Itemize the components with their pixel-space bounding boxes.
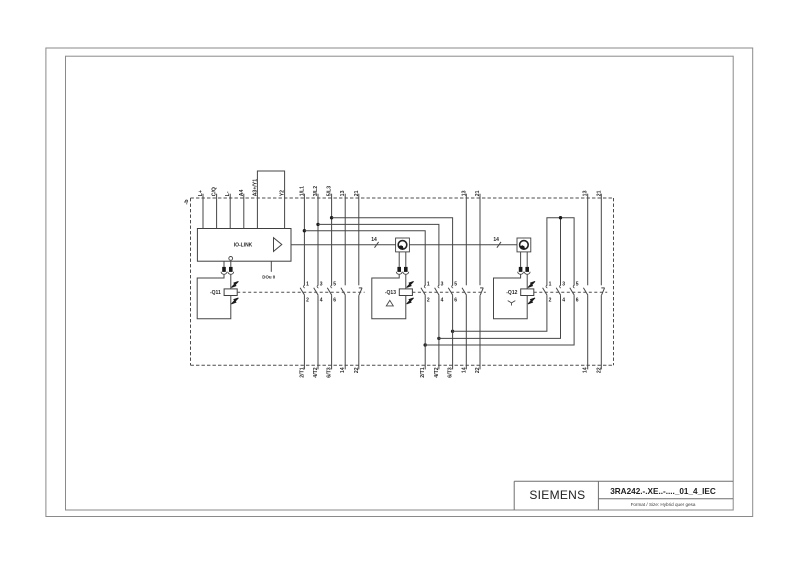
svg-text:-Q12: -Q12 — [506, 290, 517, 296]
motor winding cross wire y=331.3 — [453, 295, 547, 331]
svg-text:5: 5 — [454, 281, 457, 287]
svg-text:6: 6 — [454, 297, 457, 303]
svg-text:22: 22 — [354, 367, 360, 373]
svg-text:1/L1: 1/L1 — [299, 186, 305, 196]
wire 5/L3 top column -Q11 — [331, 194, 333, 286]
svg-text:4: 4 — [562, 297, 565, 303]
svg-text:13: 13 — [583, 190, 589, 196]
svg-text:3: 3 — [441, 281, 444, 287]
wire 13 top column -Q12 — [587, 194, 589, 286]
auxiliary NO contact 13-14 of -Q13 — [462, 288, 467, 295]
auxiliary NC contact 21-22 of -Q11 — [359, 287, 362, 289]
contactor -Q12 plunger arrow lower — [528, 298, 535, 304]
svg-text:3/L2: 3/L2 — [313, 186, 319, 196]
contactor -Q11 coil wires from module — [223, 261, 225, 267]
svg-text:22: 22 — [596, 367, 602, 373]
svg-text:21: 21 — [596, 190, 602, 196]
svg-text:14: 14 — [371, 237, 377, 243]
main contact 5-6 of -Q13 — [452, 285, 453, 288]
contactor -Q11 coil — [224, 289, 237, 296]
svg-text:3RA242.-.XE..-...._01_4_IEC: 3RA242.-.XE..-...._01_4_IEC — [610, 487, 716, 496]
svg-text:A3+/Y1: A3+/Y1 — [252, 179, 258, 197]
wire 2/T1 bottom column -Q13 — [424, 295, 426, 369]
svg-text:14: 14 — [340, 367, 346, 373]
svg-text:4: 4 — [441, 297, 444, 303]
wire 6/T3 bottom column -Q11 — [331, 295, 333, 369]
svg-text:14: 14 — [583, 367, 589, 373]
mechanical linkage dashed line -Q13 — [412, 291, 485, 293]
svg-text:C/Q: C/Q — [212, 187, 218, 196]
wire 2/T1 bottom column -Q11 — [303, 295, 305, 369]
contactor -Q11 plunger arrow lower — [231, 298, 238, 304]
contactor -Q11 coil wire A2 loop — [197, 274, 231, 319]
auxiliary NO contact 13-14 of -Q11 — [341, 288, 346, 295]
svg-text:6: 6 — [576, 297, 579, 303]
svg-text:5/L3: 5/L3 — [327, 186, 333, 196]
contactor -Q13 plug-in connector pins — [398, 252, 400, 267]
svg-text:2/T1: 2/T1 — [420, 367, 426, 377]
contactor -Q13 delta symbol — [386, 300, 393, 306]
main contact 5-6 of -Q12 — [573, 285, 574, 288]
wire 22 bottom column -Q12 — [600, 295, 602, 369]
svg-text:A4: A4 — [239, 190, 245, 197]
svg-text:2: 2 — [549, 297, 552, 303]
auxiliary NC contact 21-22 of -Q13 — [480, 287, 483, 289]
svg-text:-Q13: -Q13 — [385, 290, 396, 296]
mechanical linkage dashed line -Q12 — [534, 291, 607, 293]
svg-text:1: 1 — [306, 281, 309, 287]
svg-text:6/T3: 6/T3 — [448, 367, 454, 377]
contactor -Q12 coil — [521, 289, 534, 296]
svg-text:2: 2 — [306, 297, 309, 303]
node junction star bridge — [559, 216, 562, 219]
main contact 5-6 of -Q11 — [331, 285, 332, 288]
terminal wire L- — [229, 194, 231, 229]
contactor -Q13 coil wire A1 — [405, 274, 407, 289]
main contact 3-4 of -Q13 — [438, 285, 439, 288]
wire 21 top column -Q13 — [479, 194, 481, 286]
module output stub DOu 0 — [270, 261, 272, 272]
main contact 3-4 of -Q12 — [560, 285, 561, 288]
wire 22 bottom column -Q13 — [479, 295, 481, 369]
node junction on line at x=304.4 — [303, 229, 306, 232]
svg-text:2: 2 — [427, 297, 430, 303]
inverter circle on module output — [229, 257, 233, 261]
wire 3/L2 top column -Q11 — [317, 194, 319, 286]
terminal wire A4 — [243, 194, 245, 229]
enclosure dashed boundary -b — [191, 197, 614, 199]
svg-text:13: 13 — [340, 190, 346, 196]
mechanical linkage dashed line -Q11 — [237, 291, 364, 293]
main contact 3-4 of -Q11 — [317, 285, 318, 288]
node junction on motor wire column 425.2 — [424, 343, 427, 346]
main contact 1-2 of -Q11 — [304, 285, 305, 288]
svg-text:IO-LINK: IO-LINK — [234, 242, 253, 248]
svg-text:-Q11: -Q11 — [210, 290, 221, 296]
wire 1/L1 top column -Q11 — [303, 194, 305, 286]
svg-text:L+: L+ — [198, 190, 204, 196]
svg-text:L-: L- — [225, 191, 231, 196]
contactor -Q12 plug-in connector pins — [520, 252, 522, 267]
svg-text:SIEMENS: SIEMENS — [529, 488, 585, 502]
contactor -Q12 coil wire A1 — [526, 274, 528, 289]
svg-text:22: 22 — [475, 367, 481, 373]
svg-text:1: 1 — [549, 281, 552, 287]
jumper bracket A3+/Y1 to Y2 — [257, 171, 284, 229]
svg-text:3: 3 — [320, 281, 323, 287]
contactor -Q13 plunger arrow lower — [407, 298, 414, 304]
svg-text:5: 5 — [333, 281, 336, 287]
contactor -Q13 coil — [399, 289, 412, 296]
svg-text:5: 5 — [576, 281, 579, 287]
contactor -Q12 star symbol — [508, 301, 516, 306]
wire 22 bottom column -Q11 — [358, 295, 360, 369]
wire feed from 318.0 to -Q13 column 438.9 — [318, 224, 439, 285]
svg-text:4: 4 — [320, 297, 323, 303]
wire middle column -Q12 to bridge — [560, 218, 562, 286]
contactor -Q13 coil wire A2 loop — [372, 274, 406, 319]
motor winding cross wire y=338.4 — [439, 295, 561, 338]
svg-text:Format / Size: Hybrid quer ges: Format / Size: Hybrid quer gesa — [631, 502, 696, 507]
contactor -Q13 plunger arrow upper — [407, 281, 414, 287]
auxiliary NC contact 21-22 of -Q12 — [601, 287, 604, 289]
wire 21 top column -Q12 — [600, 194, 602, 286]
node junction on line at x=331.6 — [330, 216, 333, 219]
IO-Link symbol triangle — [274, 238, 282, 252]
node junction on motor wire column 438.9 — [437, 337, 440, 340]
svg-text:14: 14 — [493, 237, 499, 243]
wire 14 bottom column -Q13 — [465, 295, 467, 369]
svg-text:21: 21 — [354, 190, 360, 196]
function module timer symbol for -Q12 — [517, 238, 531, 252]
contactor -Q12 coil wire A2 loop — [494, 274, 528, 319]
svg-text:3: 3 — [562, 281, 565, 287]
outer drawing frame — [46, 48, 753, 517]
svg-text:Y2: Y2 — [280, 190, 286, 196]
terminal wire L+ — [202, 194, 204, 229]
wire 14 bottom column -Q11 — [344, 295, 346, 369]
svg-text:14: 14 — [461, 367, 467, 373]
svg-text:21: 21 — [475, 190, 481, 196]
wire 13 top column -Q11 — [344, 194, 346, 286]
contactor -Q11 plunger arrow upper — [231, 281, 238, 287]
motor winding cross wire y=345.0 — [425, 295, 574, 345]
wire 4/T2 bottom column -Q11 — [317, 295, 319, 369]
contactor -Q11 plug-in connector pins — [223, 261, 225, 267]
function module timer symbol for -Q13 — [396, 238, 410, 252]
wire 21 top column -Q11 — [358, 194, 360, 286]
wire 6/T3 bottom column -Q13 — [452, 295, 454, 369]
wire 4/T2 bottom column -Q13 — [438, 295, 440, 369]
star point bridge wire above -Q12 — [547, 218, 574, 286]
svg-text:6/T3: 6/T3 — [327, 367, 333, 377]
contactor -Q11 coil wire A1 — [230, 274, 232, 289]
inner drawing frame — [66, 56, 734, 510]
svg-text:2/T1: 2/T1 — [299, 367, 305, 377]
svg-text:-b: -b — [184, 199, 190, 205]
terminal wire C/Q — [216, 194, 218, 229]
svg-text:1: 1 — [427, 281, 430, 287]
title block outline — [514, 480, 733, 482]
wire 14 bottom column -Q12 — [587, 295, 589, 369]
main contact 1-2 of -Q12 — [546, 285, 547, 288]
IO-Link module box — [197, 229, 291, 262]
node junction on line at x=318.0 — [316, 223, 319, 226]
node junction on motor wire column 452.6 — [451, 330, 454, 333]
svg-text:4/T2: 4/T2 — [434, 367, 440, 377]
wire feed from 331.6 to -Q13 column 452.6 — [332, 218, 453, 286]
auxiliary NO contact 13-14 of -Q12 — [583, 288, 588, 295]
wire 13 top column -Q13 — [465, 194, 467, 286]
svg-text:DOu 0: DOu 0 — [262, 274, 275, 279]
main contact 1-2 of -Q13 — [424, 285, 425, 288]
wire module output to -Q13 function module — [291, 244, 396, 246]
contactor -Q12 plunger arrow upper — [528, 281, 535, 287]
wire feed from 304.4 to -Q13 column 425.2 — [304, 231, 425, 286]
svg-text:4/T2: 4/T2 — [313, 367, 319, 377]
wire -Q13 function module to -Q12 function module — [409, 244, 517, 246]
svg-text:6: 6 — [333, 297, 336, 303]
svg-text:13: 13 — [461, 190, 467, 196]
